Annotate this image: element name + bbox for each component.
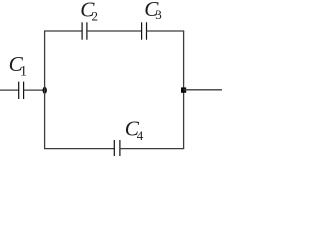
wire: left vertical branch: [44, 31, 46, 149]
wire: top segment, left corner to C2: [44, 30, 82, 32]
node A (junction dot, left): [43, 87, 47, 94]
svg-text:4: 4: [137, 128, 144, 143]
capacitor C4: [114, 140, 120, 156]
svg-text:1: 1: [20, 64, 27, 80]
wire: bottom segment, left corner to C4: [44, 148, 114, 150]
label C2: [80, 0, 98, 24]
wire: right output lead: [184, 89, 222, 91]
label C3: [144, 0, 162, 22]
capacitor C3: [142, 22, 147, 39]
svg-text:3: 3: [155, 7, 162, 22]
wire: bottom segment, C4 to right corner: [120, 148, 184, 150]
node B (junction dot, right): [181, 87, 186, 92]
wire: left input lead: [0, 89, 19, 91]
label C1: [9, 52, 28, 79]
capacitor C2: [82, 22, 87, 39]
label C4: [125, 117, 144, 143]
capacitor C1: [19, 82, 24, 99]
svg-text:2: 2: [92, 9, 99, 24]
wire: right vertical branch: [183, 31, 185, 149]
wire: top segment, C3 to right corner: [147, 30, 185, 32]
wire: top segment, C2 to C3: [87, 30, 142, 32]
wire: C1 to node A: [24, 89, 45, 91]
